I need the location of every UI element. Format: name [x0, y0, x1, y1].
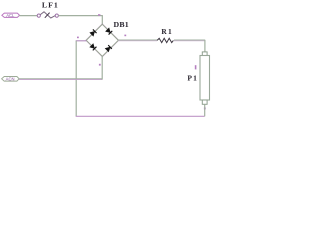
svg-text:ACN: ACN: [6, 76, 15, 81]
pin stub P1 bottom: [204, 107, 206, 109]
wire down to bridge top: [101, 16, 103, 25]
diode D-LB (left to bottom): [90, 44, 97, 51]
wire up to P1 bottom: [204, 104, 206, 116]
pin tick bottom corner: [99, 64, 101, 66]
connector P1: [200, 52, 210, 104]
port ACN: [2, 76, 20, 81]
port ACL: [2, 13, 20, 18]
svg-text:R1: R1: [161, 27, 173, 36]
wire LF1 to top corner: [58, 15, 102, 17]
svg-text:DB1: DB1: [114, 20, 129, 29]
svg-text:LF1: LF1: [42, 1, 59, 10]
wire ACL to LF1: [19, 15, 37, 17]
svg-text:P1: P1: [187, 74, 198, 83]
svg-text:ACL: ACL: [6, 13, 15, 18]
pin tick P1 pin1: [195, 65, 197, 69]
pin line purple under wire: [118, 40, 205, 42]
wire ACN purple overlay: [19, 79, 102, 81]
wire left vertical down: [75, 41, 77, 117]
resistor R1: [157, 38, 174, 43]
wire bridge right to P1 top corner: [118, 39, 205, 41]
diode D-TR (top to right): [105, 28, 112, 35]
wire up to bridge bottom: [101, 56, 103, 79]
diode D-LT (left to top): [90, 29, 97, 36]
pin tick left corner: [77, 37, 79, 39]
pin number tick: [98, 14, 100, 16]
fuse LF1: [37, 12, 58, 18]
stub bridge left corner: [76, 40, 87, 42]
wire down to P1 top: [204, 40, 206, 52]
pin tick right corner: [124, 35, 126, 37]
wire bottom rail: [76, 115, 205, 117]
wire ACN to bridge bottom corner: [18, 78, 102, 80]
bridge DB1 diamond: [86, 24, 119, 57]
diode D-BR (bottom to right): [105, 45, 112, 52]
